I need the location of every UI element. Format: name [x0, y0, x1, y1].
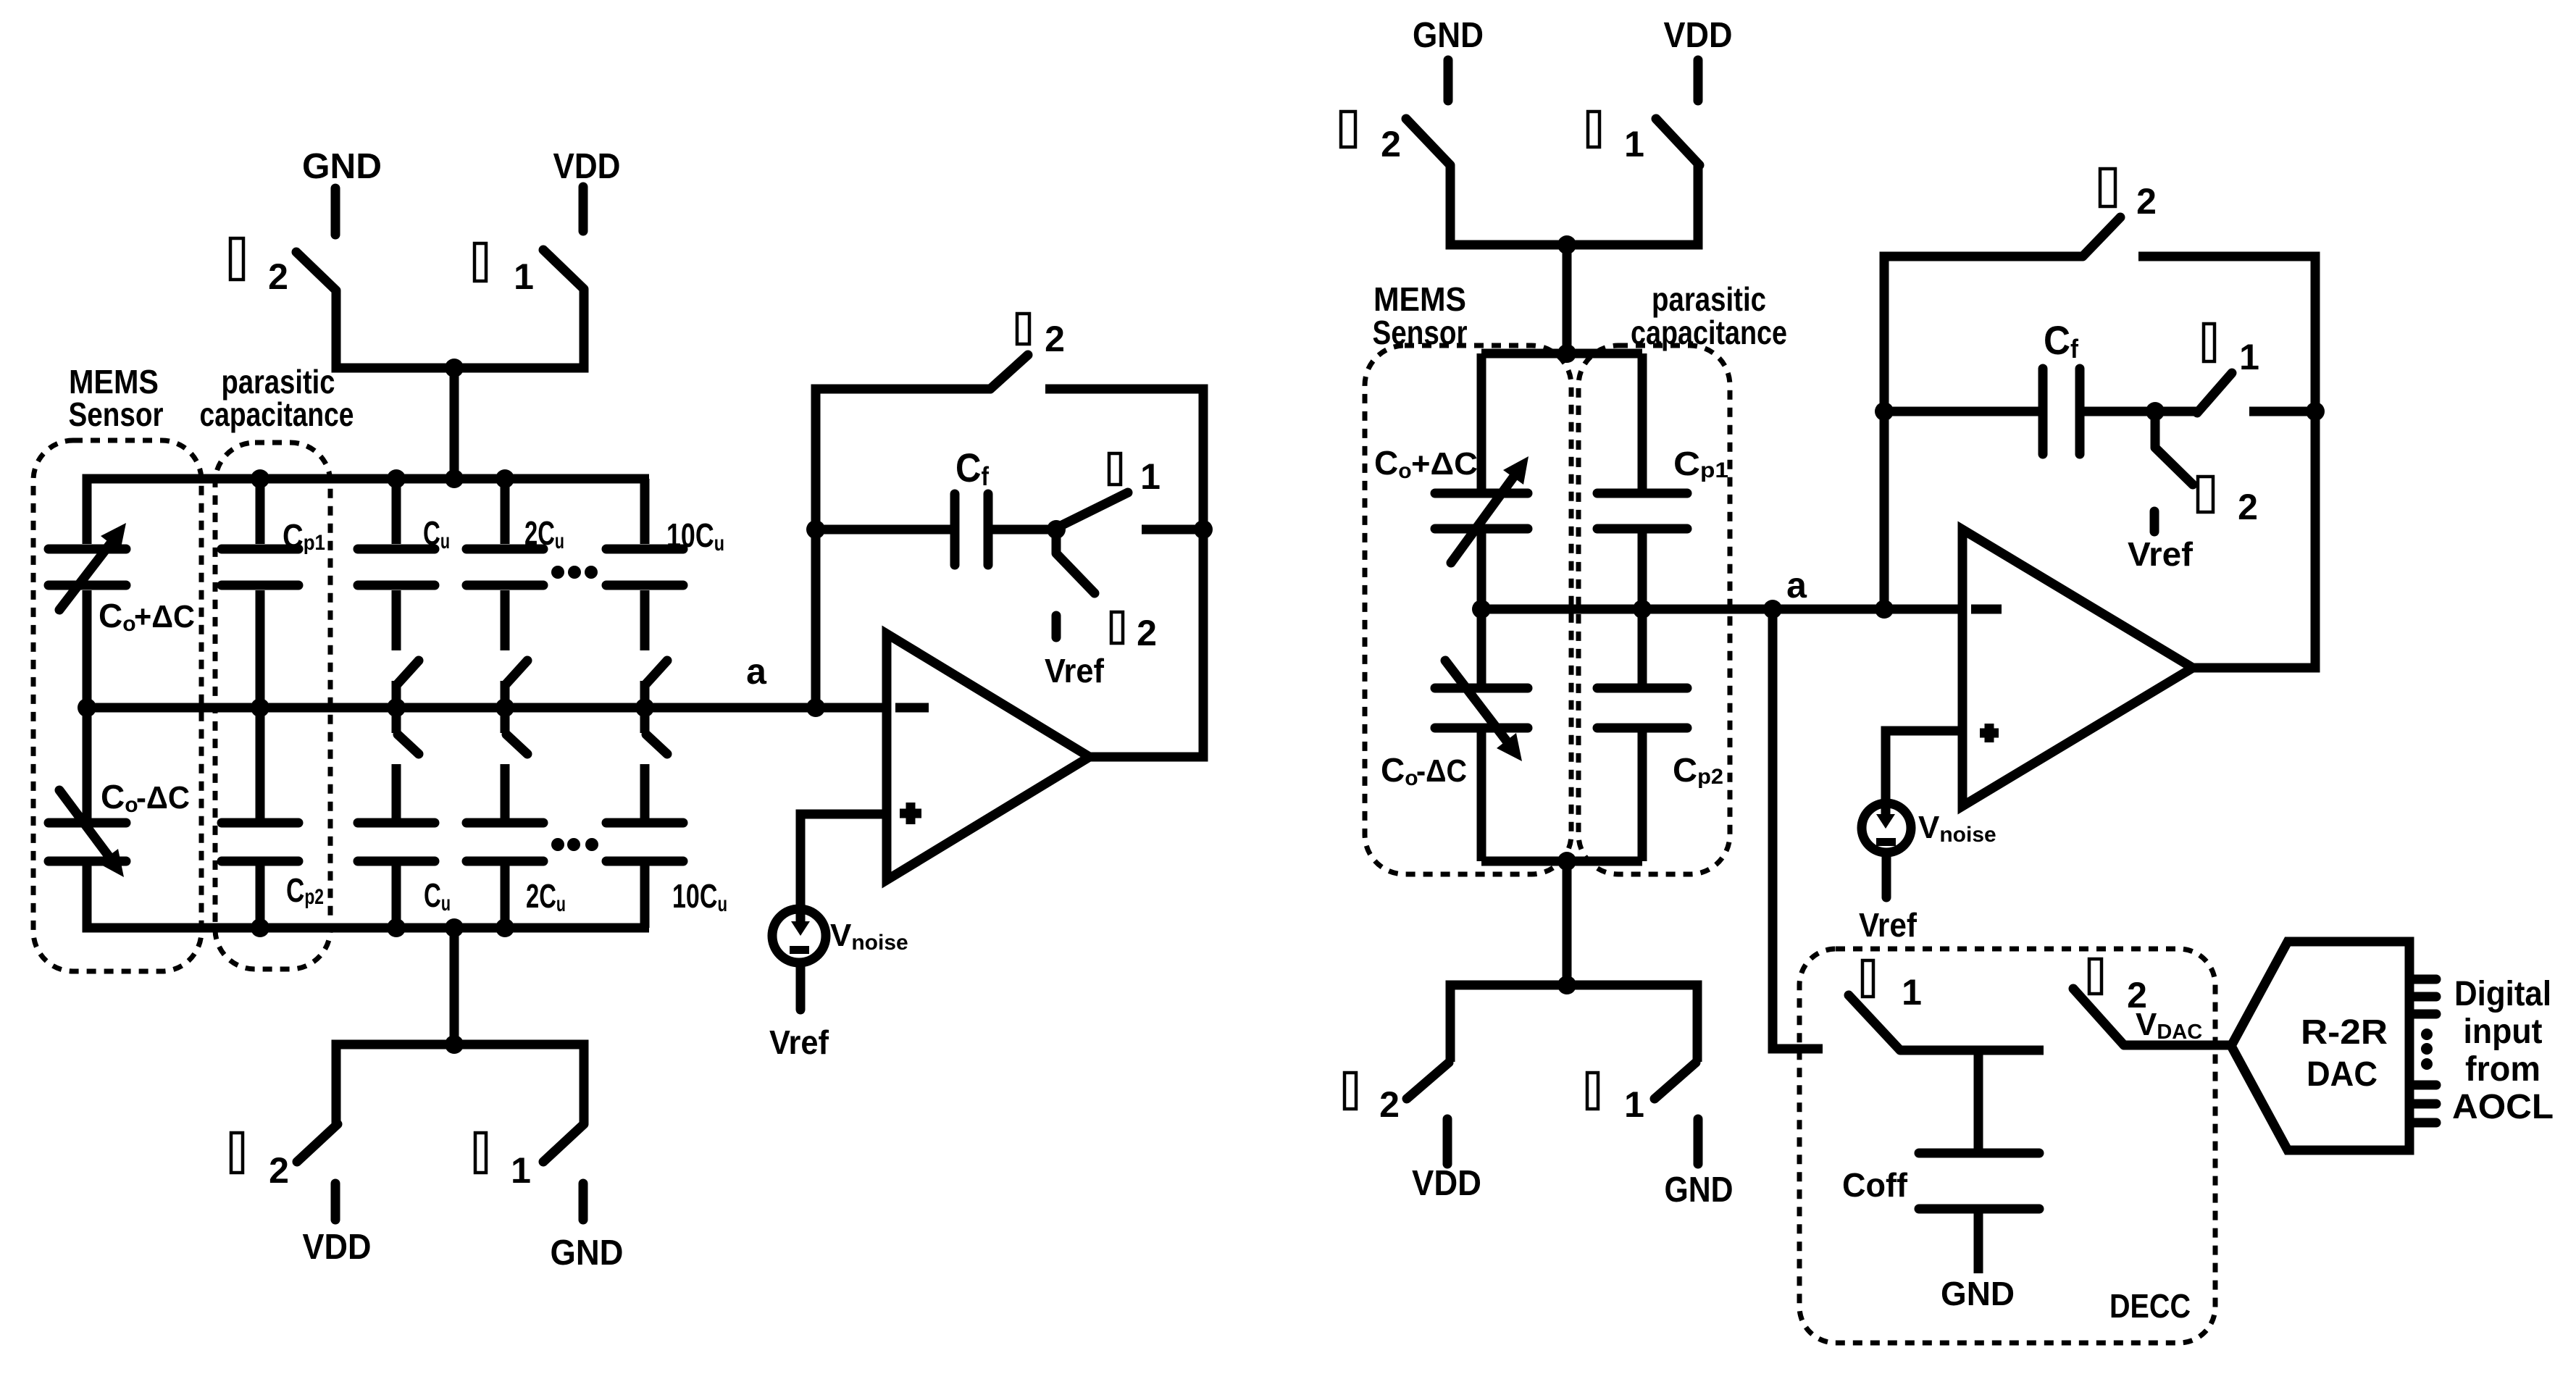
switch phi1 blade (left opamp): [1059, 493, 1128, 527]
wire VDD stub (right top): [1694, 60, 1703, 101]
junction Cp1 top: [251, 469, 269, 488]
dashed box MEMS sensor (left): [33, 440, 201, 971]
junction Cp2 bottom: [251, 918, 269, 937]
wire bottom switch bus (right): [1450, 985, 1697, 1062]
wire Coff bottom stem (DECC): [1974, 1213, 1983, 1273]
svg-text:Coff: Coff: [1842, 1166, 1908, 1204]
wire VDD stub (left top): [579, 187, 588, 231]
svg-text:MEMS: MEMS: [1373, 280, 1466, 318]
capacitor Coff plates: [1919, 1153, 2039, 1209]
phi1 label box (right bottom): [1587, 1073, 1598, 1109]
capacitor 10Cu bottom: [606, 764, 683, 928]
svg-text:Digital: Digital: [2454, 975, 2551, 1013]
svg-text:1: 1: [2239, 337, 2259, 377]
wire VDAC bar (DECC): [2124, 1041, 2231, 1050]
wire GND stub (left top): [331, 188, 340, 235]
switch phi1 blade (DECC): [1849, 995, 1900, 1050]
wire phi1 contact (left opamp): [1142, 525, 1203, 535]
svg-text:Vref: Vref: [769, 1023, 829, 1061]
switch phi1 blade (right top): [1656, 119, 1699, 165]
wire feedback top right and right vertical (right opamp): [2138, 256, 2315, 668]
phi1 label box (right top): [1588, 112, 1599, 147]
op-amp U2 minus input mark: [1971, 605, 2002, 614]
wire Cp2 top stem (right): [1638, 609, 1647, 684]
svg-text:2: 2: [2136, 181, 2157, 222]
capacitor Cf plates (right): [2043, 369, 2080, 454]
junction DECC drop node a (right): [1763, 600, 1782, 619]
wire Co+dC top stem (right): [1477, 353, 1486, 490]
svg-text:1: 1: [514, 256, 534, 297]
capacitor Cp2 plates: [222, 823, 298, 861]
wire Cf row right (left opamp): [992, 525, 1056, 535]
svg-text:1: 1: [511, 1150, 531, 1191]
junction feedback right Cf row (right): [2306, 402, 2325, 421]
wire top switch bus (right): [1450, 165, 1698, 245]
phi2 label box (left top): [230, 238, 243, 280]
wire GND stub (right bottom): [1694, 1119, 1703, 1164]
phi2 label box (right bottom): [1345, 1073, 1356, 1109]
capacitor Co-dC plates: [49, 823, 126, 861]
wire MEMS top stem: [83, 493, 92, 544]
svg-text:2: 2: [268, 256, 288, 297]
svg-text:GND: GND: [1941, 1275, 2015, 1312]
capacitor Cu bottom: [358, 764, 435, 928]
junction power-bus top: [445, 469, 464, 488]
wire VDD stub (right bottom): [1443, 1119, 1452, 1164]
svg-text:capacitance: capacitance: [1631, 314, 1787, 351]
svg-text:2: 2: [2238, 487, 2258, 527]
svg-text:AOCL: AOCL: [2452, 1088, 2554, 1126]
junction feedback node a (right): [1875, 600, 1894, 619]
wire node a bus (left): [87, 703, 887, 713]
wire phi1 contact (right opamp): [2249, 407, 2315, 416]
phi1 label box (left top): [474, 243, 486, 281]
svg-text:Sensor: Sensor: [69, 395, 164, 433]
svg-text:1: 1: [1140, 456, 1161, 497]
dashed box parasitic capacitance (left): [215, 443, 330, 969]
wire feedback top and left vertical (right opamp): [1884, 256, 2083, 609]
wire MEMS mid stem lower: [83, 708, 92, 818]
wire GND stub (left bottom): [579, 1184, 588, 1220]
junction feedback right Cf row (left): [1194, 520, 1213, 539]
wire Vref stub below Vnoise (right): [1882, 856, 1891, 897]
wire Cp2 bottom stem: [256, 866, 265, 928]
wire Coff top stem (DECC): [1974, 1050, 1983, 1149]
phi1 label box (left opamp): [1109, 453, 1121, 485]
svg-text:parasitic: parasitic: [1652, 280, 1766, 318]
wire Cf row left (right opamp): [1884, 407, 2038, 416]
phi1 label box (right opamp): [2204, 324, 2215, 361]
junction feedback Cf row (left): [806, 520, 825, 539]
junction Cf switch node (left): [1047, 520, 1066, 539]
svg-text:1: 1: [1902, 972, 1922, 1013]
switch phi1 blade (right bottom): [1655, 1063, 1696, 1099]
wire bottom switch bus (left): [336, 1044, 584, 1123]
junction Cu bottom: [387, 918, 406, 937]
svg-text:R-2R: R-2R: [2301, 1013, 2388, 1052]
arrow Co+dC variable: [59, 523, 126, 610]
svg-text:a: a: [1786, 565, 1807, 606]
junction Co node a (right): [1472, 600, 1491, 619]
junction bottom power node (left): [445, 1035, 464, 1054]
wire Co-dC bottom stem (right): [1477, 732, 1486, 861]
op-amp U1 plus input mark: [900, 803, 921, 824]
wire top switch bus (left): [336, 289, 584, 368]
wire Cp1 bottom stem (right): [1638, 532, 1647, 609]
svg-text:2: 2: [1045, 319, 1065, 359]
svg-text:DAC: DAC: [2307, 1055, 2378, 1094]
svg-text:GND: GND: [551, 1233, 624, 1273]
wire power stem (left top): [450, 368, 459, 479]
switch phi1 blade (left bottom): [543, 1124, 584, 1162]
switch phi2 blade (left bottom): [297, 1124, 338, 1162]
capacitor Co+dC plates: [49, 549, 126, 585]
junction Cf switch node (right): [2146, 402, 2165, 421]
ellipsis top row (left): [551, 566, 598, 579]
junction sensor bottom bus (right): [1557, 852, 1576, 871]
svg-text:VDD: VDD: [1412, 1164, 1481, 1203]
capacitor Co+dC plates (right): [1435, 493, 1528, 529]
wire plus input (left opamp): [800, 814, 887, 908]
wire node a bus (right): [1481, 605, 1962, 614]
wire power stem (right bottom): [1563, 861, 1572, 985]
ellipsis DAC pins: [2421, 1029, 2433, 1070]
svg-text:2: 2: [1381, 124, 1401, 164]
svg-text:+ΔC: +ΔC: [1411, 446, 1478, 482]
capacitor Co-dC plates (right): [1435, 688, 1528, 728]
switch Cu upper blade: [396, 661, 419, 708]
op-amp U1 triangle: [887, 634, 1090, 880]
switch phi2 blade (DECC): [2073, 989, 2124, 1045]
svg-text:capacitance: capacitance: [200, 395, 354, 433]
wire Vref contact stub (left opamp): [1052, 616, 1061, 637]
junction sensor top bus (right): [1557, 344, 1576, 363]
junction MEMS node a: [78, 698, 96, 717]
phi2 label box (left bottom): [231, 1133, 243, 1173]
svg-text:1: 1: [1624, 124, 1644, 164]
wire sensor bottom bus (right): [1481, 857, 1642, 866]
wire Coff top bar (DECC): [1900, 1046, 2044, 1055]
junction 2Cu bottom: [495, 918, 514, 937]
wire Cp column mid: [256, 590, 265, 819]
switch 2Cu lower blade: [505, 708, 527, 754]
svg-text:a: a: [746, 651, 767, 692]
switch phi2 blade feedback top (right): [2083, 217, 2120, 256]
arrow Co-dC variable (right): [1445, 661, 1522, 761]
phi2 label box lower (left opamp): [1111, 612, 1123, 643]
capacitor 2Cu bottom: [467, 764, 543, 928]
op-amp U1 minus input mark: [895, 703, 929, 713]
junction power-bus bottom: [445, 918, 464, 937]
wire Vref stub below Vnoise (left): [796, 966, 806, 1010]
svg-text:from: from: [2465, 1050, 2541, 1089]
phi1 label box (left bottom): [475, 1133, 486, 1173]
svg-text:input: input: [2464, 1013, 2543, 1051]
capacitor Cp1 plates (right): [1597, 493, 1687, 529]
switch phi2 blade (right bottom): [1407, 1063, 1449, 1099]
capacitor Cu top: [358, 479, 435, 650]
phi2 label box feedback top (left): [1017, 314, 1029, 344]
phi2 label box lower (right opamp): [2198, 477, 2213, 512]
source Vnoise circle (left): [772, 909, 826, 963]
svg-text:Vref: Vref: [1859, 906, 1918, 944]
junction feedback Cf row (right): [1875, 402, 1894, 421]
junction Cp node a (right): [1633, 600, 1652, 619]
svg-text:Vref: Vref: [2128, 535, 2194, 573]
wire Co-dC top stem (right): [1477, 609, 1486, 684]
capacitor 10Cu top: [606, 479, 683, 650]
switch phi2 blade to Vref (left opamp): [1056, 529, 1095, 593]
svg-text:VDD: VDD: [303, 1228, 372, 1267]
wire power stem (right top): [1563, 245, 1572, 353]
wire feedback top and left vertical (left opamp): [816, 389, 990, 708]
switch phi2 blade feedback top (left): [990, 355, 1028, 389]
wire Cp1 top stem (right): [1638, 353, 1647, 490]
switch phi2 blade (right top): [1406, 119, 1450, 165]
wire sensor top bus (right): [1481, 349, 1642, 359]
op-amp U2 plus input mark: [1980, 724, 1999, 742]
junction top power node (left): [445, 359, 464, 377]
block R-2R DAC outline: [2231, 942, 2409, 1150]
svg-text:GND: GND: [1413, 16, 1484, 55]
switch phi1 blade (left top): [543, 250, 584, 289]
phi2 label box feedback top (right): [2100, 169, 2115, 206]
svg-text:-ΔC: -ΔC: [136, 780, 190, 816]
dashed box DECC: [1799, 949, 2215, 1343]
svg-text:GND: GND: [302, 147, 382, 186]
svg-text:2: 2: [269, 1150, 289, 1191]
svg-text:2: 2: [1137, 613, 1157, 653]
wire VDD stub (left bottom): [331, 1184, 340, 1220]
switch Cu lower blade: [396, 708, 419, 754]
wire GND stub (right top): [1444, 60, 1453, 101]
wire Cp1 top stem: [256, 479, 265, 544]
source Vnoise circle (right): [1862, 803, 1911, 853]
switch phi1 blade (right opamp): [2197, 373, 2232, 413]
svg-text:Vref: Vref: [1045, 652, 1105, 690]
wire node a drop to DECC: [1773, 609, 1823, 1049]
svg-text:2: 2: [1379, 1084, 1400, 1125]
junction 10Cu node a: [635, 698, 654, 717]
wire MEMS bottom stem: [83, 866, 92, 913]
svg-text:GND: GND: [1665, 1170, 1734, 1210]
switch 10Cu upper blade: [645, 661, 667, 708]
junction Cp node a: [251, 698, 269, 717]
arrow Co+dC variable (right): [1451, 456, 1529, 563]
ellipsis bottom row (left): [551, 838, 598, 851]
wire bottom plate bus (left): [87, 866, 649, 928]
svg-text:1: 1: [1624, 1084, 1644, 1125]
wire Cp2 bottom stem (right): [1638, 732, 1647, 861]
wire plus input (right opamp): [1886, 731, 1962, 804]
svg-text:VDD: VDD: [553, 147, 621, 186]
wire Co+dC bottom stem (right): [1477, 532, 1486, 609]
svg-text:DECC: DECC: [2109, 1287, 2191, 1325]
arrow Co-dC variable: [59, 790, 124, 877]
junction feedback node a: [806, 698, 825, 717]
junction Cu top: [387, 469, 406, 488]
junction top power node (right): [1557, 235, 1576, 254]
capacitor Cp1 plates: [222, 549, 298, 585]
pins digital input (DAC): [2412, 979, 2436, 1123]
wire Vref contact stub (right opamp): [2150, 511, 2159, 532]
wire Cf row mid (right opamp): [2084, 407, 2197, 416]
switch 10Cu lower blade: [645, 708, 667, 754]
wire MEMS mid stem upper: [83, 590, 92, 708]
capacitor Cp2 plates (right): [1597, 688, 1687, 728]
op-amp U2 triangle: [1962, 529, 2193, 806]
wire Cf row left (left opamp): [816, 525, 950, 535]
dashed box MEMS sensor (right): [1365, 345, 1571, 874]
phi1 label box (DECC): [1862, 960, 1873, 997]
switch 2Cu upper blade: [505, 661, 527, 708]
junction bottom power node (right): [1557, 976, 1576, 994]
capacitor 2Cu top: [467, 479, 543, 650]
capacitor Cf plates (left): [955, 494, 988, 565]
junction Cu node a: [387, 698, 406, 717]
wire top plate bus (left): [87, 479, 649, 544]
wire feedback top right and right vertical (left opamp): [1045, 389, 1203, 757]
svg-text:Sensor: Sensor: [1373, 314, 1468, 351]
wire power stem (left bottom): [450, 928, 459, 1044]
phi2 label box (DECC): [2089, 959, 2102, 994]
svg-text:+ΔC: +ΔC: [134, 599, 195, 634]
svg-text:VDD: VDD: [1664, 16, 1733, 55]
svg-text:-ΔC: -ΔC: [1416, 753, 1467, 789]
switch phi2 blade (left top): [296, 252, 336, 290]
junction 2Cu top: [495, 469, 514, 488]
switch phi2 blade to Vref (right opamp): [2155, 411, 2193, 485]
junction 2Cu node a: [495, 698, 514, 717]
dashed box parasitic capacitance (right): [1578, 345, 1730, 874]
phi2 label box (right top): [1341, 112, 1355, 147]
